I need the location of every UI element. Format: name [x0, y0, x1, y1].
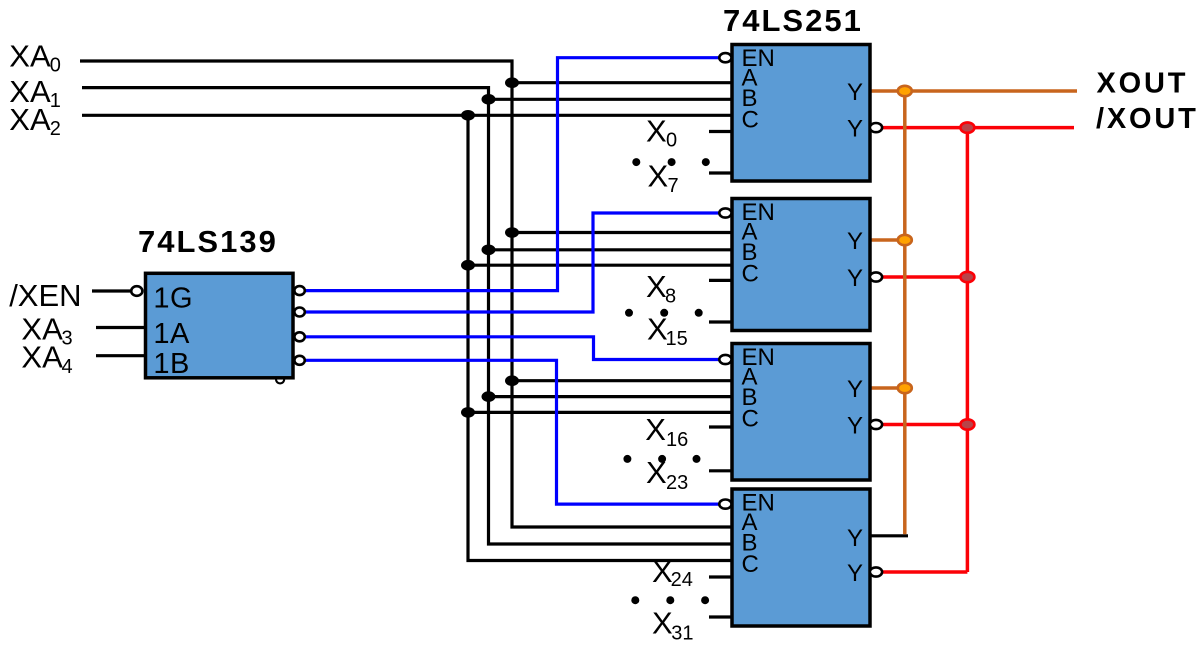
mux U2 74LS251 body [732, 45, 870, 182]
wire tap XA0 to A pin of U4 [512, 379, 732, 382]
svg-text:X: X [652, 605, 673, 640]
wire /Y of U4 to red bus [882, 423, 967, 427]
junction XA1/B-U3 [482, 245, 496, 256]
svg-text:/XEN: /XEN [9, 278, 81, 313]
bubble EN of U3 [719, 208, 731, 217]
svg-text:XOUT: XOUT [1097, 68, 1189, 100]
wire X16 input stub [709, 425, 732, 428]
svg-text:74LS139: 74LS139 [138, 224, 278, 259]
wire Y of U3 to orange bus [870, 238, 905, 242]
svg-text:2: 2 [50, 118, 61, 140]
svg-text:7: 7 [668, 175, 679, 197]
ellipsis dots U3 inputs [625, 309, 633, 317]
junction XA0/A-U4 [505, 375, 519, 386]
bubble /XEN input of U1 [131, 286, 142, 296]
wire X0 input stub [709, 130, 732, 133]
svg-text:C: C [742, 107, 759, 134]
wire /XOUT vertical bus (red) [966, 128, 970, 572]
mux U3 74LS251 body [732, 199, 870, 331]
wire X24 input stub [709, 575, 732, 578]
wire tap XA1 to B pin of U3 [489, 248, 733, 251]
junction XA0/A-U3 [505, 227, 519, 238]
junction /XOUT//Y-U3 [960, 272, 974, 282]
wire X8 input stub [709, 279, 732, 282]
svg-text:23: 23 [666, 472, 688, 494]
ellipsis dots U2 inputs [632, 158, 640, 166]
mux U4 74LS251 body [732, 344, 870, 481]
junction XA2/C-U2 [461, 110, 475, 121]
junction XOUT/Y-U2 [898, 86, 912, 96]
wire XA4 input stub to 1B [96, 354, 145, 357]
svg-text:C: C [742, 261, 759, 288]
svg-text:0: 0 [50, 55, 61, 77]
svg-text:1B: 1B [153, 348, 189, 380]
wire XOUT vertical bus (orange) [903, 91, 907, 534]
svg-text:Y: Y [847, 228, 863, 255]
wire /XEN input stub [92, 289, 131, 292]
junction XA2/C-U4 [461, 407, 475, 418]
wire XA2 vertical bus down to C pin of U5 [468, 115, 732, 560]
svg-text:31: 31 [671, 623, 693, 645]
junction /XOUT//Y-U2 [960, 122, 974, 132]
junction XA1/B-U4 [482, 391, 496, 402]
svg-text:Y: Y [847, 79, 863, 106]
svg-text:Y: Y [847, 376, 863, 403]
decoder U1 74LS139 body [146, 273, 294, 378]
bubble 1Y0 output of U1 [294, 286, 304, 295]
wire X7 input stub [709, 171, 732, 174]
junction XOUT/Y-U4 [898, 383, 912, 393]
wire tap XA2 to C pin of U4 [468, 411, 732, 414]
bubble EN of U4 [719, 355, 731, 364]
wire /Y of U3 to red bus [882, 275, 967, 279]
svg-text:3: 3 [62, 327, 73, 349]
svg-text:C: C [742, 551, 759, 578]
wire X31 input stub [709, 615, 732, 618]
svg-text:Y: Y [847, 116, 863, 143]
svg-text:X: X [646, 269, 667, 304]
svg-text:1G: 1G [153, 282, 193, 314]
wire tap XA1 to B pin of U4 [489, 395, 733, 398]
svg-text:X: X [646, 113, 667, 148]
bubble 1Y3 output of U1 [294, 356, 304, 365]
junction XA1/B-U2 [482, 94, 496, 105]
svg-text:XA: XA [9, 38, 51, 73]
junction XA2/C-U3 [461, 260, 475, 271]
bubble EN of U5 [719, 500, 731, 509]
junction XOUT/Y-U3 [898, 235, 912, 245]
bubble /Y of U2 [870, 123, 882, 132]
svg-text:1A: 1A [153, 318, 190, 350]
wire XA0 net (horizontal from label, vertical bus, to A pin of U5) [80, 61, 732, 527]
svg-text:Y: Y [847, 413, 863, 440]
wire 1Y1 of U1 to EN of U3 (blue) [305, 213, 719, 312]
wire tap XA2 to C pin of U3 [468, 264, 732, 267]
junction XA0/A-U2 [505, 77, 519, 88]
wire 1Y0 of U1 to EN of U2 (blue) [305, 58, 719, 291]
wire tap XA0 to A pin of U3 [512, 231, 732, 234]
bubble /Y of U4 [870, 420, 882, 429]
svg-text:8: 8 [665, 285, 676, 307]
svg-text:X: X [648, 159, 669, 194]
svg-text:C: C [742, 406, 759, 433]
hidden label descender below U1 box [276, 379, 284, 383]
ellipsis dots U4 inputs [623, 455, 631, 463]
svg-text:0: 0 [666, 129, 677, 151]
svg-text:/XOUT: /XOUT [1096, 103, 1199, 135]
mux U5 74LS251 body [732, 489, 870, 626]
wire X15 input stub [709, 320, 732, 323]
wire /Y of U2 to /XOUT (red) [882, 126, 1074, 130]
svg-text:XA: XA [21, 340, 63, 375]
bubble 1Y2 output of U1 [294, 332, 304, 341]
svg-text:24: 24 [671, 569, 693, 591]
wire Y of U2 to XOUT (orange) [870, 89, 1077, 93]
svg-text:X: X [645, 412, 666, 447]
bubble 1Y1 output of U1 [294, 308, 304, 317]
wire Y output stub of U5 (black) [870, 534, 908, 537]
svg-text:16: 16 [666, 429, 688, 451]
svg-text:Y: Y [847, 265, 863, 292]
svg-text:4: 4 [62, 356, 73, 378]
wire 1Y2 of U1 to EN of U4 (blue) [305, 337, 719, 360]
svg-text:Y: Y [847, 560, 863, 587]
wire 1Y3 of U1 to EN of U5 (blue) [305, 360, 719, 504]
wire XA1 net (horizontal from label, vertical bus, to B pin of U5) [82, 88, 732, 544]
wire XA3 input stub to 1A [96, 326, 145, 329]
svg-text:XA: XA [9, 102, 51, 137]
wire /Y of U5 to red bus [882, 570, 967, 574]
svg-text:Y: Y [847, 525, 863, 552]
junction /XOUT//Y-U4 [960, 419, 974, 429]
bubble /Y of U3 [870, 272, 882, 281]
svg-text:74LS251: 74LS251 [723, 3, 863, 38]
svg-text:15: 15 [666, 328, 688, 350]
wire tap XA0 to A pin of U2 [512, 81, 732, 84]
bubble EN of U2 [719, 53, 731, 62]
wire X23 input stub [709, 469, 732, 472]
wire XA2 net horizontal to C pin of U2 [82, 114, 732, 117]
bubble /Y of U5 [870, 567, 882, 576]
svg-text:1: 1 [50, 90, 61, 112]
ellipsis dots U5 inputs [631, 596, 639, 604]
wire Y of U4 to orange bus [870, 386, 905, 390]
wire tap XA1 to B pin of U2 [489, 98, 733, 101]
